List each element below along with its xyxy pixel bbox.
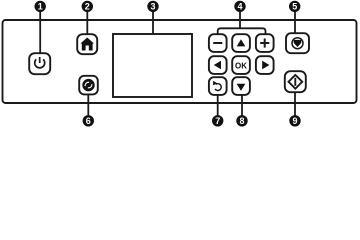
callout 7	[212, 115, 223, 126]
svg-text:4: 4	[237, 2, 242, 12]
callout 2	[82, 1, 93, 12]
svg-text:1: 1	[38, 2, 43, 12]
right button	[256, 56, 274, 74]
home button	[77, 34, 97, 54]
power button	[29, 53, 50, 74]
wifi button	[79, 76, 98, 95]
stop button	[286, 33, 309, 53]
callout line 7	[217, 95, 219, 116]
callout line 8	[241, 95, 243, 116]
svg-text:8: 8	[239, 116, 244, 126]
callout line 2	[86, 12, 88, 35]
callout 8	[236, 115, 247, 126]
callout 6	[83, 115, 94, 126]
callout line 6	[87, 94, 89, 116]
callout 4	[234, 1, 245, 12]
callout line 5	[294, 12, 296, 34]
svg-text:6: 6	[86, 116, 91, 126]
svg-text:3: 3	[150, 2, 155, 12]
callout 5	[289, 1, 300, 12]
down button	[232, 77, 250, 95]
svg-text:9: 9	[292, 116, 297, 126]
up button	[232, 34, 250, 52]
left button	[209, 56, 227, 74]
start button	[285, 71, 306, 92]
svg-text:5: 5	[292, 2, 297, 12]
callout line 9	[294, 92, 296, 116]
callout line 4 with bracket	[218, 12, 266, 34]
callout 1	[35, 1, 46, 12]
callout 3	[147, 1, 158, 12]
callout line 1	[39, 12, 41, 53]
callout 9	[289, 115, 300, 126]
OK button	[232, 56, 250, 74]
svg-text:7: 7	[215, 116, 220, 126]
back button	[209, 77, 227, 95]
minus button	[209, 34, 227, 52]
callout line 3	[152, 12, 154, 48]
control panel outline	[3, 20, 357, 103]
svg-text:2: 2	[85, 2, 90, 12]
LCD screen	[113, 34, 192, 97]
plus button	[256, 34, 274, 52]
svg-text:OK: OK	[235, 61, 247, 70]
